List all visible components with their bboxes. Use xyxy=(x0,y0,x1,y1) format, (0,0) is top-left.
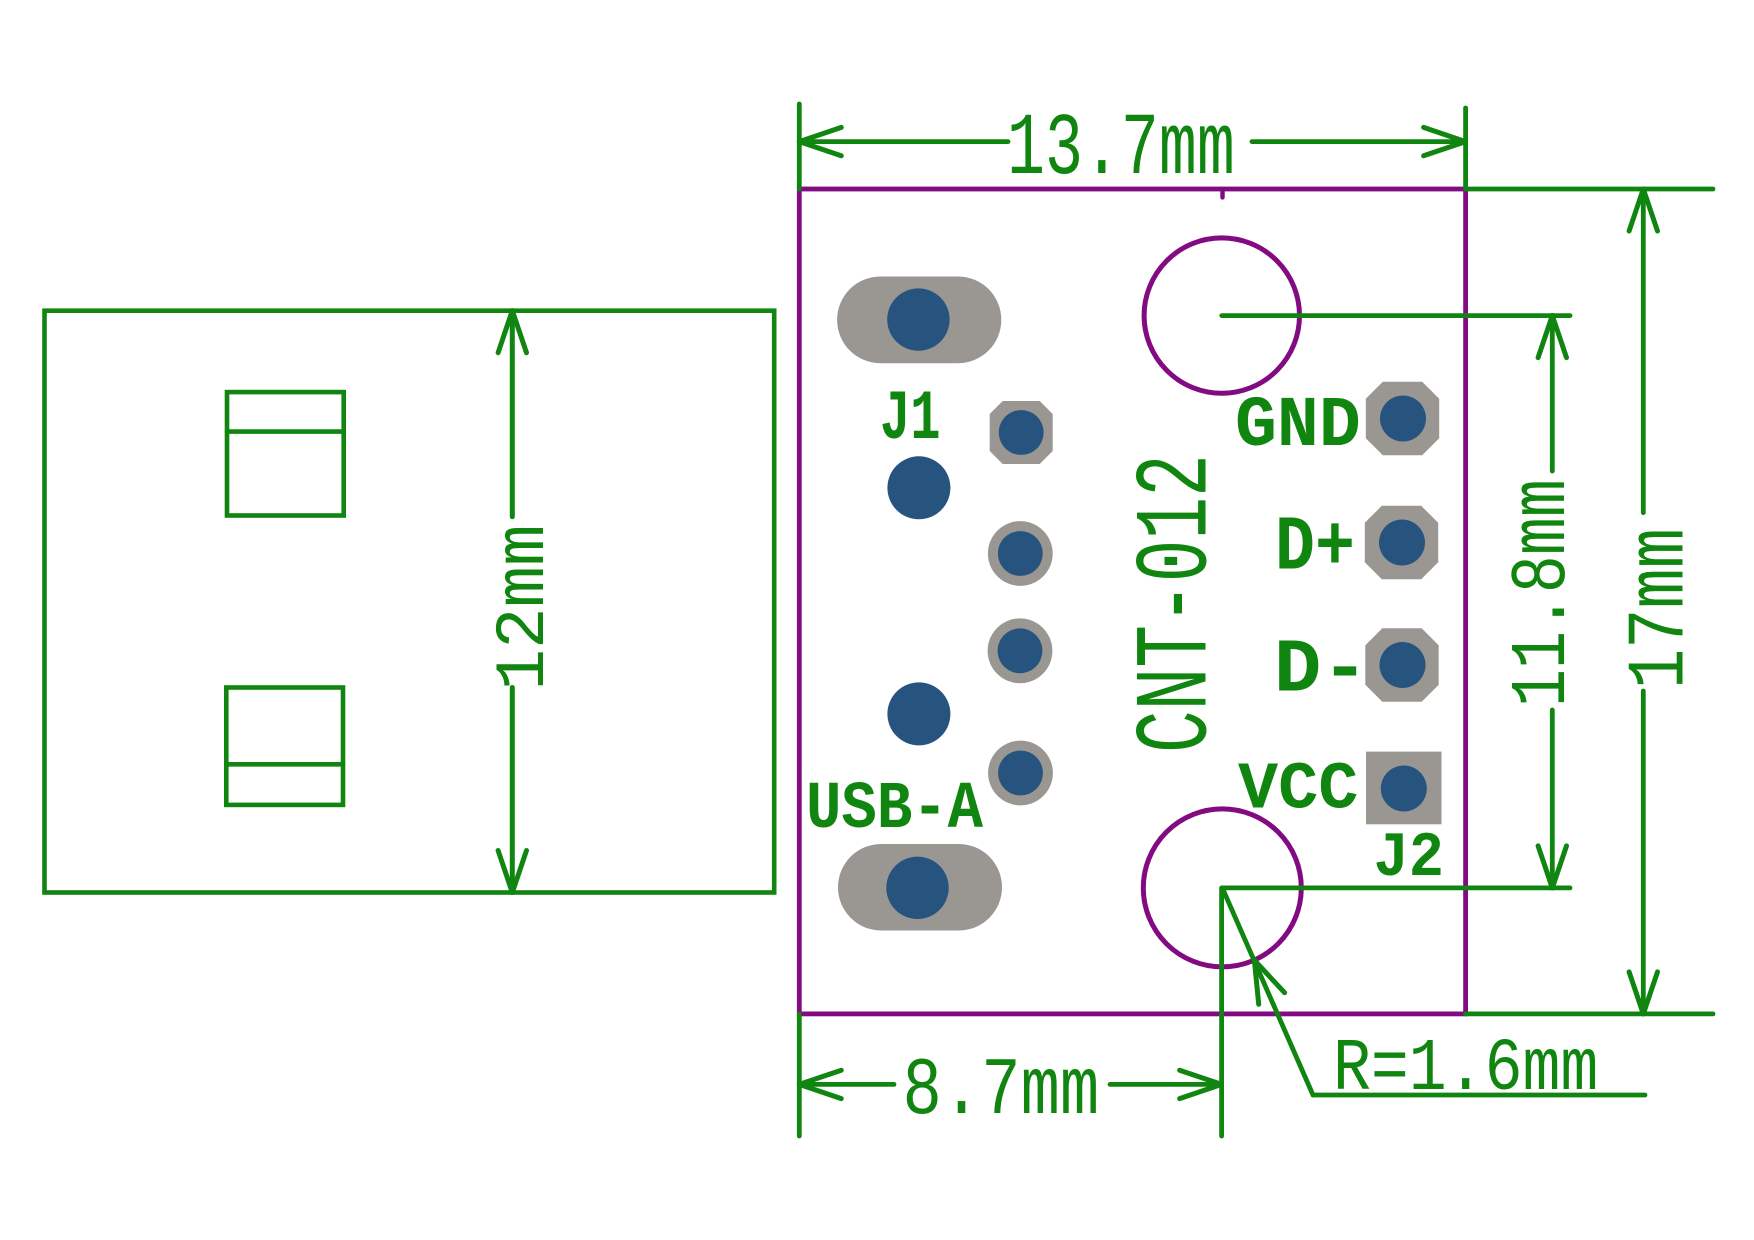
dimension 11.8mm arrow down xyxy=(1552,846,1566,888)
dimension 11.8mm line lower segment xyxy=(1550,710,1555,888)
dimension 13.7mm line right segment xyxy=(1252,139,1466,144)
dimension 11.8mm arrow up xyxy=(1538,316,1552,358)
svg-text:11.8mm: 11.8mm xyxy=(1499,479,1588,707)
dimension 8.7mm extension line right (from bottom hole center) xyxy=(1219,888,1224,1136)
dimension 12mm line upper segment xyxy=(510,311,515,517)
J1 pin 2 pad xyxy=(988,521,1053,586)
radius leader horizontal line xyxy=(1313,1093,1645,1098)
svg-text:D+: D+ xyxy=(1275,506,1355,593)
J2 VCC hole xyxy=(1381,766,1427,812)
USB-A plug contact window 1 xyxy=(227,392,344,515)
J1 mounting hole top xyxy=(887,288,949,350)
dimension 17mm line upper segment xyxy=(1641,189,1646,513)
J1 pin 4 hole xyxy=(998,751,1043,796)
mounting hole circle bottom (edge cut) xyxy=(1143,809,1301,967)
mounting hole circle top (edge cut) xyxy=(1144,238,1299,393)
connector J1 mounting pad bottom (stadium) xyxy=(838,844,1002,931)
radius leader diagonal line xyxy=(1222,888,1313,1095)
J1 pin 3 hole xyxy=(998,628,1043,673)
svg-text:J1: J1 xyxy=(880,380,941,460)
J2 pad GND (octagon) xyxy=(1366,382,1439,455)
svg-text:8.7mm: 8.7mm xyxy=(903,1046,1100,1138)
contact window 1 divider xyxy=(227,429,344,434)
dimension 8.7mm line left segment xyxy=(799,1082,894,1087)
svg-text:CNT-012: CNT-012 xyxy=(1120,454,1238,753)
J1 pin 3 pad xyxy=(988,618,1053,683)
PCB board outline xyxy=(799,189,1465,1014)
J2 D+ hole xyxy=(1379,520,1425,566)
J1 pin 2 hole xyxy=(998,531,1043,576)
dimension 13.7mm extension line right xyxy=(1463,108,1468,189)
svg-text:R=1.6mm: R=1.6mm xyxy=(1333,1028,1598,1112)
connector J1 mounting pad top (stadium) xyxy=(837,277,1001,364)
dimension 11.8mm line upper segment xyxy=(1550,316,1555,471)
dimension 12mm line lower segment xyxy=(510,688,515,893)
J2 pad VCC pin1 (square) xyxy=(1366,752,1442,825)
J2 pad D+ (octagon) xyxy=(1365,506,1438,579)
svg-text:VCC: VCC xyxy=(1238,752,1358,828)
svg-text:USB-A: USB-A xyxy=(806,772,984,848)
J1 mounting hole bottom xyxy=(886,857,948,919)
dimension 8.7mm line right segment xyxy=(1110,1082,1222,1087)
dimension 17mm arrow up xyxy=(1629,189,1643,231)
J1 pin 4 pad xyxy=(988,741,1053,806)
svg-text:13.7mm: 13.7mm xyxy=(1007,101,1235,200)
dimension 8.7mm arrow right xyxy=(1180,1070,1222,1084)
board edge tick mark xyxy=(1220,189,1224,198)
dimension 17mm extension line bottom xyxy=(1466,1012,1713,1017)
J1 pin 1 hole xyxy=(999,410,1044,455)
svg-text:17mm: 17mm xyxy=(1615,528,1708,689)
dimension 17mm extension line top xyxy=(1466,187,1713,192)
dimension 8.7mm extension line left xyxy=(797,1014,802,1136)
dimension 13.7mm extension line left xyxy=(797,104,802,189)
via hole upper xyxy=(887,456,950,519)
dimension 11.8mm extension line top (from top hole center) xyxy=(1222,313,1570,318)
svg-text:GND: GND xyxy=(1235,387,1361,467)
dimension 11.8mm extension line bottom (from bottom hole center) xyxy=(1222,886,1570,891)
J2 pad D- (octagon) xyxy=(1365,628,1438,701)
J1 pin 1 pad (octagon) xyxy=(990,401,1053,464)
dimension 17mm line lower segment xyxy=(1641,691,1646,1014)
dimension 8.7mm arrow left xyxy=(799,1084,841,1098)
svg-text:D-: D- xyxy=(1274,627,1369,714)
contact window 2 divider xyxy=(226,762,343,767)
dimension 12mm arrow down xyxy=(512,851,526,893)
svg-text:12mm: 12mm xyxy=(485,524,565,690)
USB-A plug body outline xyxy=(45,311,775,893)
dimension 17mm arrow down xyxy=(1643,972,1657,1014)
radius leader arrowhead xyxy=(1254,960,1258,1004)
dimension 13.7mm arrow left xyxy=(799,142,841,156)
J2 GND hole xyxy=(1380,396,1426,442)
dimension 13.7mm line left segment xyxy=(799,139,1008,144)
svg-text:J2: J2 xyxy=(1374,823,1444,894)
USB-A plug contact window 2 xyxy=(226,688,343,805)
J2 D- hole xyxy=(1380,642,1426,688)
dimension 12mm arrow up xyxy=(498,311,512,353)
via hole lower xyxy=(887,682,950,745)
dimension 13.7mm arrow right xyxy=(1424,127,1466,141)
